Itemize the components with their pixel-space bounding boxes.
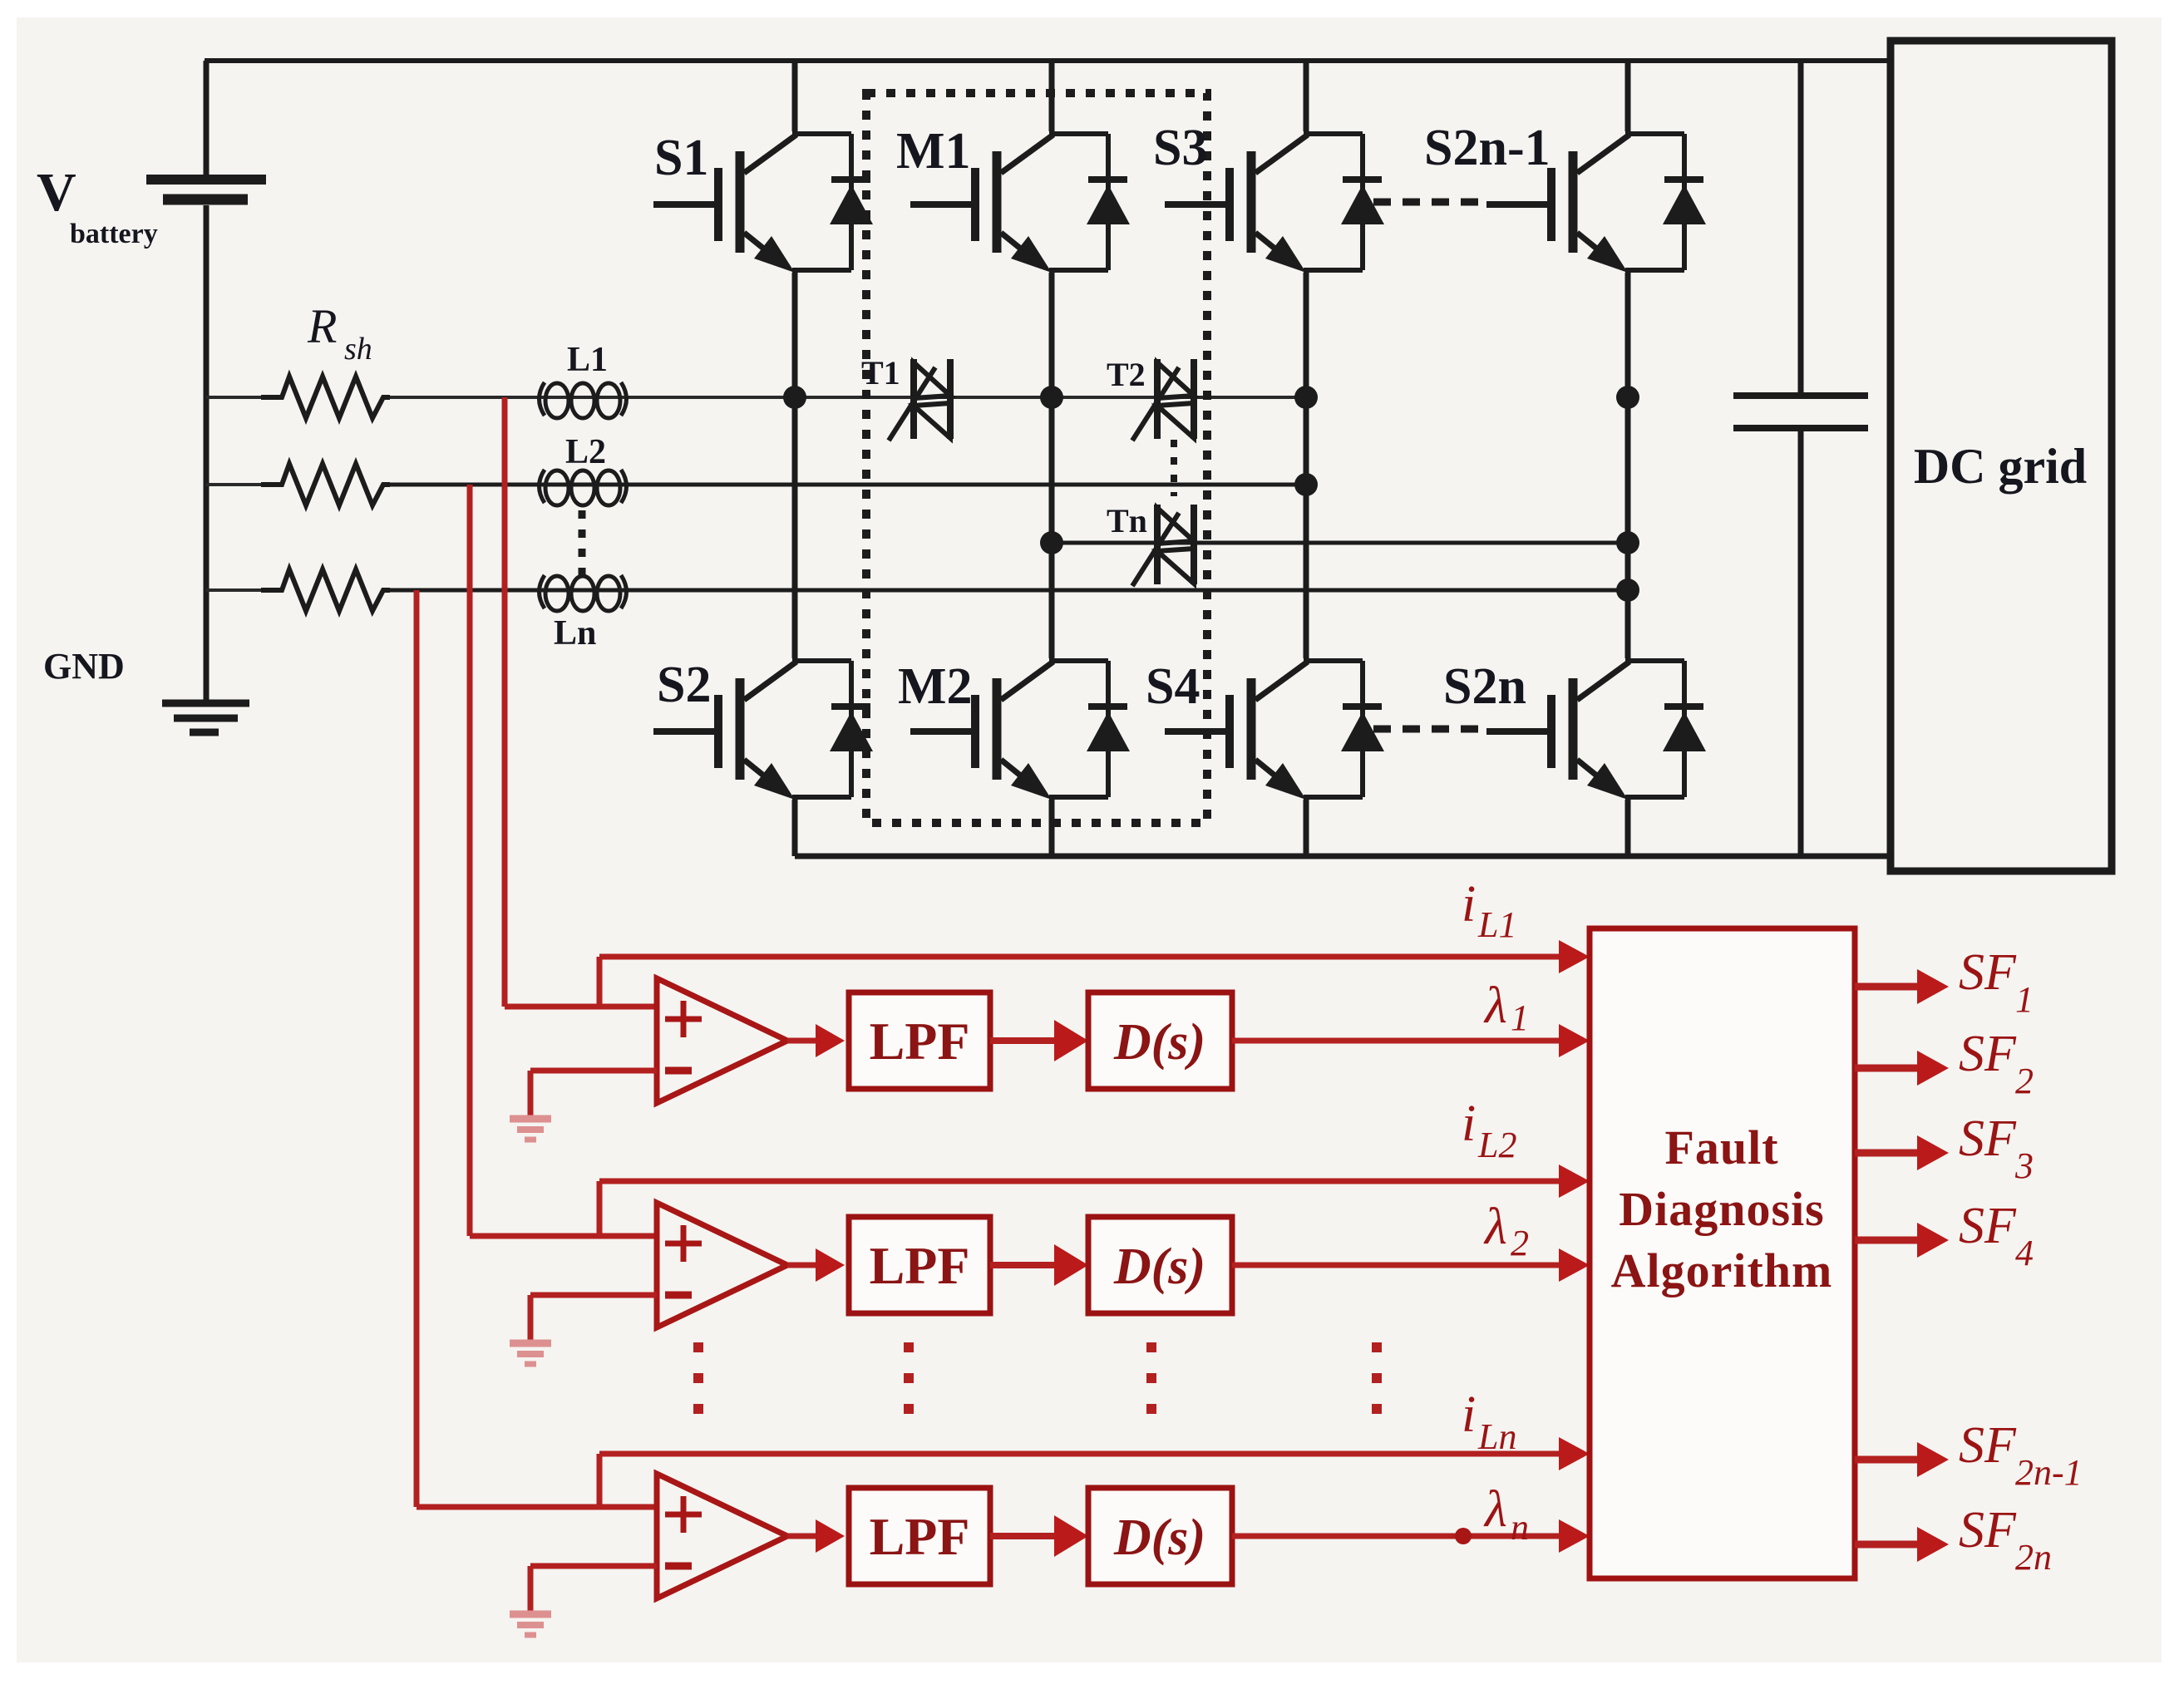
- svg-text:DC grid: DC grid: [1914, 439, 2087, 494]
- svg-text:n: n: [1511, 1507, 1529, 1548]
- svg-text:S2n: S2n: [1443, 658, 1526, 715]
- svg-text:4: 4: [2015, 1233, 2034, 1273]
- svg-text:i: i: [1462, 1386, 1476, 1443]
- svg-text:T2: T2: [1107, 356, 1146, 393]
- svg-text:SF: SF: [1959, 1026, 2017, 1082]
- svg-text:S2n-1: S2n-1: [1424, 120, 1550, 176]
- svg-text:SF: SF: [1959, 1110, 2017, 1167]
- svg-text:T1: T1: [861, 354, 900, 391]
- svg-text:R: R: [307, 299, 337, 353]
- svg-text:SF: SF: [1959, 944, 2017, 1001]
- svg-text:battery: battery: [70, 219, 158, 249]
- svg-text:λ: λ: [1483, 1199, 1507, 1255]
- svg-text:Diagnosis: Diagnosis: [1619, 1182, 1825, 1236]
- svg-text:2: 2: [2015, 1061, 2034, 1101]
- svg-text:2n-1: 2n-1: [2015, 1452, 2083, 1493]
- svg-text:λ: λ: [1483, 1481, 1507, 1538]
- svg-text:sh: sh: [344, 332, 372, 367]
- svg-text:3: 3: [2014, 1145, 2034, 1186]
- svg-text:M1: M1: [896, 123, 971, 180]
- svg-text:Tn: Tn: [1107, 502, 1147, 539]
- svg-text:SF: SF: [1959, 1502, 2017, 1559]
- svg-text:2n: 2n: [2015, 1537, 2052, 1578]
- svg-text:Algorithm: Algorithm: [1611, 1243, 1833, 1298]
- svg-text:S4: S4: [1146, 658, 1200, 715]
- svg-text:Ln: Ln: [554, 614, 596, 652]
- svg-text:L1: L1: [567, 341, 608, 379]
- svg-text:i: i: [1462, 876, 1476, 933]
- svg-text:GND: GND: [43, 646, 125, 687]
- svg-text:S3: S3: [1153, 120, 1207, 176]
- svg-text:Fault: Fault: [1664, 1120, 1778, 1174]
- svg-text:1: 1: [2015, 979, 2034, 1020]
- svg-text:i: i: [1462, 1096, 1476, 1152]
- svg-text:L2: L2: [1477, 1125, 1516, 1165]
- svg-text:L2: L2: [565, 433, 606, 471]
- svg-text:1: 1: [1511, 997, 1529, 1038]
- svg-text:2: 2: [1511, 1223, 1529, 1263]
- svg-text:S2: S2: [657, 657, 711, 713]
- svg-text:L1: L1: [1477, 904, 1516, 945]
- svg-text:Ln: Ln: [1477, 1416, 1516, 1457]
- svg-text:S1: S1: [654, 130, 708, 186]
- svg-text:λ: λ: [1483, 977, 1507, 1034]
- svg-text:SF: SF: [1959, 1198, 2017, 1254]
- svg-text:M2: M2: [898, 658, 973, 715]
- svg-text:SF: SF: [1959, 1417, 2017, 1474]
- svg-text:V: V: [37, 162, 76, 223]
